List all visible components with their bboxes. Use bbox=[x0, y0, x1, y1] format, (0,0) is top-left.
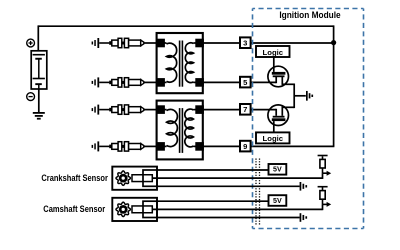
spark plug P1 bbox=[92, 38, 144, 48]
spark plug P2 bbox=[92, 77, 144, 87]
ignition coil T1 bbox=[156, 33, 204, 93]
wire crank signal bbox=[152, 173, 322, 179]
transistor Q2 bbox=[268, 105, 294, 133]
svg-text:Logic: Logic bbox=[263, 134, 284, 143]
label Ignition Module bbox=[279, 10, 340, 21]
svg-text:Crankshaft Sensor: Crankshaft Sensor bbox=[41, 173, 108, 184]
svg-text:Logic: Logic bbox=[263, 48, 284, 57]
wire plug1 to coil T1 bbox=[144, 42, 157, 44]
wire T1 pin5 bbox=[203, 81, 240, 83]
svg-text:7: 7 bbox=[243, 105, 247, 114]
ignition coil T2 bbox=[156, 101, 204, 160]
wire pin7 to transistor Q2 bbox=[250, 109, 276, 111]
svg-text:Ignition Module: Ignition Module bbox=[279, 10, 340, 21]
crankshaft sensor bbox=[112, 167, 157, 190]
pin 5 bbox=[240, 77, 251, 88]
label Camshaft Sensor bbox=[43, 204, 105, 215]
logic block U1 bbox=[256, 46, 290, 57]
wire T1 pin3 bbox=[203, 42, 240, 44]
svg-text:3: 3 bbox=[243, 39, 247, 48]
wire pin5 to transistor Q1 bbox=[250, 81, 276, 83]
ground crank sensor bbox=[300, 182, 308, 191]
resistor R2 pull-up + signal arrow bbox=[318, 186, 332, 207]
wire cam ground bbox=[157, 217, 300, 219]
wire crank ground bbox=[157, 185, 300, 187]
logic block U2 bbox=[256, 132, 290, 143]
svg-text:5V: 5V bbox=[273, 197, 282, 205]
pin 7 bbox=[240, 104, 251, 115]
wire battery positive to B+ rail (top) bbox=[38, 25, 333, 51]
pin 9 bbox=[240, 141, 251, 152]
ignition module enclosure (dashed) bbox=[253, 9, 364, 229]
wire crank 5V bbox=[157, 169, 269, 171]
wire plug3 to coil T2 bbox=[144, 109, 157, 111]
label Crankshaft Sensor bbox=[41, 173, 108, 184]
ground cam sensor bbox=[300, 213, 308, 222]
connector boundary (dotted) bbox=[256, 159, 260, 226]
svg-text:Camshaft Sensor: Camshaft Sensor bbox=[43, 204, 105, 215]
wire plug2 to coil T1 bbox=[144, 81, 157, 83]
wire rail to ground bbox=[294, 95, 306, 97]
battery positive terminal circle bbox=[27, 39, 35, 47]
ground battery bbox=[33, 113, 45, 119]
wire plug4 to coil T2 bbox=[144, 145, 157, 147]
battery negative terminal circle bbox=[27, 93, 35, 101]
wire T2 pin7 bbox=[203, 109, 240, 111]
wire B+ down to pin 9 row bbox=[250, 43, 334, 146]
battery B1 bbox=[31, 51, 47, 89]
supply box 5V crank bbox=[269, 164, 287, 175]
spark plug P4 bbox=[92, 141, 144, 151]
wire cam 5V bbox=[157, 200, 269, 202]
resistor R1 pull-up + signal arrow bbox=[318, 155, 332, 176]
node B+ junction dot bbox=[331, 40, 336, 45]
wire battery negative to ground bbox=[38, 89, 40, 113]
svg-text:5V: 5V bbox=[273, 166, 282, 174]
transistor Q1 bbox=[268, 57, 294, 87]
camshaft sensor bbox=[112, 198, 157, 221]
wire T2 pin9 bbox=[203, 145, 240, 147]
svg-text:9: 9 bbox=[243, 142, 247, 151]
spark plug P3 bbox=[92, 105, 144, 115]
wire common emitter rail bbox=[293, 84, 295, 109]
pin 3 bbox=[240, 37, 251, 48]
wire cam signal bbox=[152, 204, 322, 210]
wire pin3 to junction bbox=[250, 42, 333, 44]
ground module bbox=[306, 91, 313, 101]
supply box 5V cam bbox=[269, 195, 287, 206]
